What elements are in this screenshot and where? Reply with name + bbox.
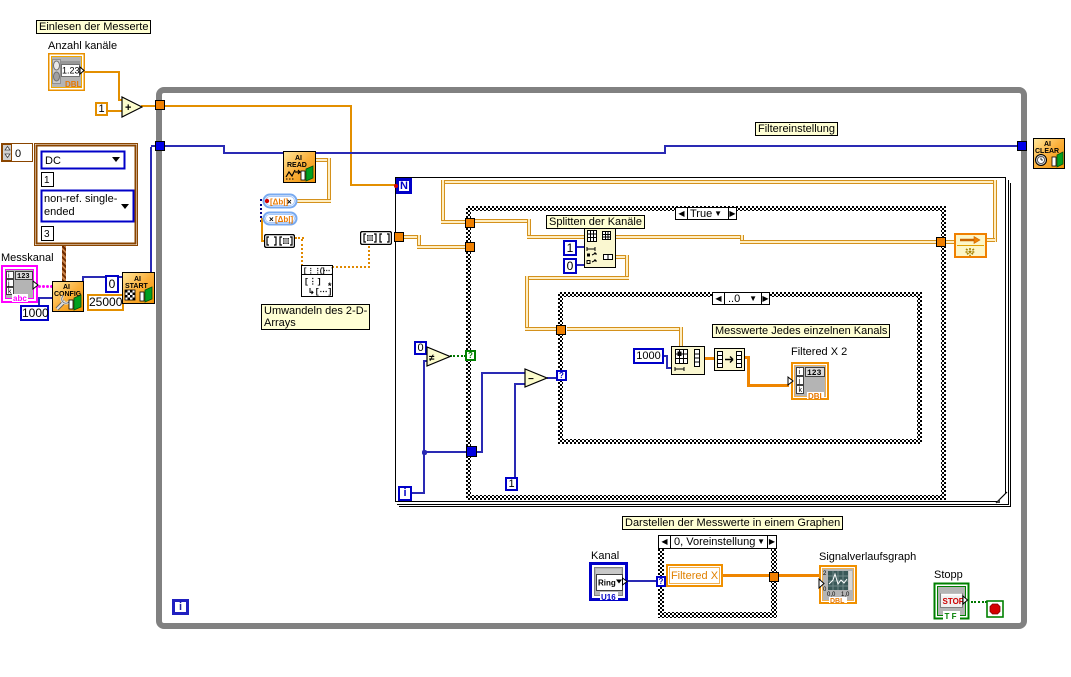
svg-text:DBL: DBL	[65, 80, 82, 89]
svg-text:STOP: STOP	[943, 597, 965, 606]
svg-text:Ring: Ring	[598, 579, 616, 588]
svg-text:DC: DC	[45, 155, 61, 167]
svg-text:*: *	[327, 282, 332, 292]
svg-text:abc: abc	[13, 294, 27, 303]
svg-text:j: j	[798, 378, 801, 385]
svg-text:READ: READ	[287, 162, 307, 169]
svg-text:DBL: DBL	[830, 598, 845, 604]
svg-text:T F: T F	[945, 612, 957, 621]
svg-text:[⋮]: [⋮]	[304, 278, 322, 287]
svg-text:(⋯): (⋯)	[319, 268, 333, 276]
svg-text:AI: AI	[1044, 141, 1051, 148]
svg-text:k: k	[799, 387, 803, 394]
svg-text:non-ref. single-: non-ref. single-	[44, 193, 118, 205]
svg-text:j: j	[7, 281, 10, 288]
svg-text:AI: AI	[134, 276, 141, 283]
svg-text:AI: AI	[295, 155, 302, 162]
svg-text:1.23: 1.23	[62, 66, 80, 76]
svg-text:[Δb|]: [Δb|]	[270, 198, 289, 207]
svg-text:CLEAR: CLEAR	[1035, 148, 1059, 155]
svg-text:123: 123	[807, 369, 822, 378]
svg-text:AI: AI	[63, 284, 70, 291]
svg-text:k: k	[8, 289, 12, 296]
svg-text:−: −	[528, 374, 534, 385]
svg-text:START: START	[125, 283, 149, 290]
svg-text:123: 123	[17, 273, 30, 281]
svg-text:0: 0	[15, 148, 21, 160]
svg-text:+: +	[125, 102, 131, 114]
svg-text:ended: ended	[44, 206, 75, 218]
svg-text:[Δb|]: [Δb|]	[275, 215, 294, 224]
svg-text:3: 3	[44, 229, 50, 240]
svg-text:≠: ≠	[429, 353, 435, 364]
svg-text:×: ×	[269, 215, 274, 224]
svg-text:1: 1	[44, 175, 50, 186]
svg-text:×: ×	[287, 198, 292, 207]
svg-text:U16: U16	[601, 593, 616, 601]
svg-text:DBL: DBL	[808, 392, 825, 400]
